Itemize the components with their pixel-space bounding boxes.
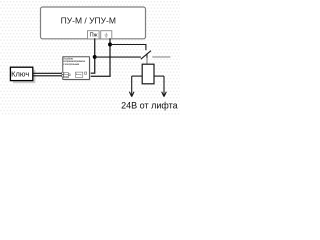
wire B: junction right to switch left contact — [95, 56, 141, 58]
wire from Пж terminal down and left to interface box — [88, 38, 95, 73]
interface sub-module left — [64, 73, 70, 78]
wire from ground terminal down and left to interface box — [88, 38, 110, 76]
svg-text:вход: вход — [64, 76, 68, 78]
wire stub left of coil — [132, 75, 143, 77]
key switch box Ключ shadow — [13, 70, 35, 83]
link from switch down to relay — [146, 58, 148, 64]
svg-text:Ключ: Ключ — [11, 70, 29, 79]
interface left connector pin 1 — [62, 72, 64, 74]
svg-text:ПУ-М / УПУ-М: ПУ-М / УПУ-М — [61, 15, 116, 25]
relay coil K1 — [142, 64, 154, 84]
svg-text:с контрольным: с контрольным — [63, 63, 79, 66]
switch tick — [146, 53, 148, 58]
terminal ground — [101, 31, 112, 39]
double wire key to interface lower — [33, 75, 63, 77]
node junction on ground drop — [108, 43, 112, 47]
arrow down left (24V feed) — [129, 76, 134, 97]
wire stub right of coil — [154, 75, 164, 77]
interface sub-module right — [75, 72, 86, 77]
interface unit box — [63, 56, 90, 79]
svg-text:24В от лифта: 24В от лифта — [121, 101, 177, 111]
key switch box Ключ — [10, 67, 32, 80]
double wire key to interface upper — [33, 72, 63, 74]
switch S1 blade — [141, 51, 151, 60]
interface left connector pin 2 — [62, 75, 64, 77]
node junction on Пж drop — [93, 55, 97, 59]
switch right lead (open) — [152, 56, 170, 58]
panel box U1 ПУ-М / УПУ-М — [41, 7, 146, 39]
svg-text:Пж: Пж — [89, 33, 97, 39]
background grid paper — [0, 0, 180, 115]
svg-text:Выход: Выход — [76, 74, 82, 76]
arrow down right (24V feed) — [162, 76, 167, 97]
interface unit box shadow — [64, 58, 91, 81]
terminal Пж — [88, 31, 100, 39]
wire A: junction right then down to switch — [110, 45, 146, 51]
